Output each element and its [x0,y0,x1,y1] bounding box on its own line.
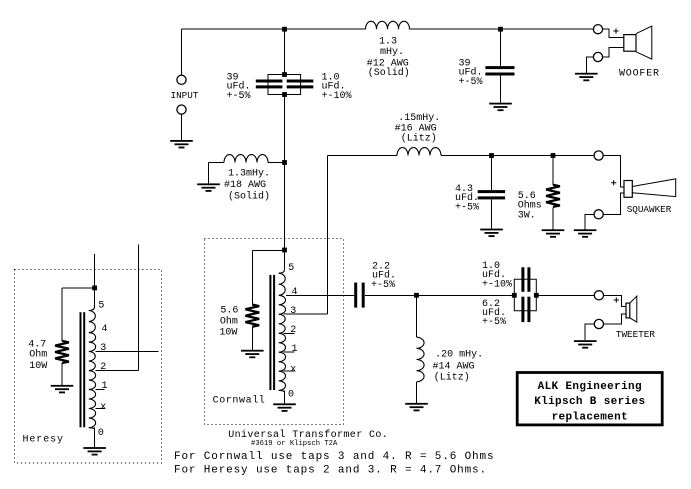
ALK Engineering title box [517,373,662,425]
svg-text:0: 0 [288,390,294,401]
capacitor C6 left plate [521,267,524,292]
svg-text:WOOFER: WOOFER [619,68,660,79]
node junction (bus / node A) [282,27,287,32]
wire R4 bottom lead [61,363,63,385]
inductor L4 .20 mHy #14 AWG (tweeter shunt) [417,337,425,382]
capacitor C5 left plate [354,283,357,308]
ground (R4) [51,385,74,393]
wire L4 ground stub [416,382,418,403]
wire L3 right lead [268,162,285,164]
svg-text:3: 3 [290,306,296,317]
autoformer T1 top curl [279,269,285,273]
ground (T1 tap 0) [273,403,296,411]
svg-text:+-5%: +-5% [459,77,483,88]
svg-text:TWEETER: TWEETER [616,329,655,340]
svg-text:5: 5 [288,263,294,274]
ground (R3) [241,350,264,358]
wire R2 bottom lead [552,207,554,229]
wire tweeter + lead [604,295,626,306]
svg-text:#14 AWG: #14 AWG [433,362,475,373]
svg-text:#18 AWG: #18 AWG [224,180,266,191]
capacitor C7 right plate [527,297,530,322]
node junction (C6-C7 right) [534,293,539,298]
tweeter speaker icon [626,296,637,322]
svg-text:1.3: 1.3 [379,37,397,48]
svg-text:+-10%: +-10% [322,91,352,102]
inductor L3 1.3 mHy #18 AWG (shunt) [224,155,268,163]
capacitor C4 top plate [478,190,505,193]
wire C3 top lead [500,29,502,66]
node junction (L3 / node A) [282,160,287,165]
wire T1 tap0 ground stub [284,390,286,403]
wire woofer terminal to ground [586,57,593,73]
C6/C7 parallel connector frame [514,279,536,311]
wire woofer + lead [603,29,624,38]
wire C4 bottom lead [491,199,493,228]
autoformer T1 winding (Cornwall) [279,273,286,390]
capacitor C6 right plate [527,267,530,292]
capacitor C4 bottom plate [478,196,505,199]
ground (tweeter terminal) [574,340,597,348]
svg-text:(Solid): (Solid) [368,67,410,79]
terminal woofer - [593,52,602,61]
wire R4 top lead [61,288,63,341]
capacitor C7 left plate [521,297,524,322]
terminal tweeter + [594,291,603,300]
ground (woofer terminal) [575,73,598,81]
svg-text:Heresy: Heresy [23,435,64,446]
terminal tweeter - [594,319,603,328]
svg-text:3: 3 [100,343,106,354]
node junction (node A / T1 tap5 / R3) [282,248,287,253]
node junction (tweeter / L4) [414,293,419,298]
wire autoformer T1 tap5 feed [284,250,286,269]
svg-text:Cornwall: Cornwall [213,395,266,407]
ground (C3 woofer cap) [489,103,512,111]
wire T2 tap2 riser (dangling top) [138,245,140,371]
svg-text:0: 0 [98,428,104,439]
polarity + (squawker) [611,180,616,185]
inductor L1 1.3 mHy #12 AWG (top bus) [366,21,410,29]
svg-text:+-5%: +-5% [482,317,506,328]
wire C3 bottom lead [500,75,502,102]
wire L4 top lead [416,295,418,337]
node junction (squawker / C4) [489,153,494,158]
wire squawker + lead [603,156,624,188]
svg-text:1.3mHy.: 1.3mHy. [228,169,270,180]
wire top bus left (input to L1) [182,28,366,30]
svg-text:10W: 10W [29,361,47,372]
wire node A to R3 [252,249,284,251]
node junction (C1-C2 top) [282,72,287,77]
wire woofer - lead [603,47,624,57]
wire C4 top lead [491,156,493,191]
svg-text:10W: 10W [219,327,237,338]
terminal squawker - [594,210,603,219]
node junction (T2 tap5 / R4) [92,286,97,291]
ground (squawker terminal) [574,229,597,237]
svg-text:.20 mHy.: .20 mHy. [435,350,483,361]
svg-text:Klipsch B series: Klipsch B series [534,396,645,408]
wire T2 tap3 lead (dangling) [96,351,159,353]
resistor R3 5.6 Ohm 10W [245,305,259,327]
svg-text:+-5%: +-5% [371,280,395,291]
ground (input) [170,140,193,148]
terminal input - [177,105,186,114]
terminal squawker + [594,151,603,160]
wire node A main drop (C1/C2 bottom to autoformer) [284,95,286,251]
wire L3 left lead [209,162,225,164]
wire C5 to C6/C7 pair [365,294,515,296]
svg-text:+-5%: +-5% [455,202,479,213]
svg-text:#3619 or Klipsch T2A: #3619 or Klipsch T2A [251,440,338,448]
capacitor C2 bottom plate [287,85,314,88]
svg-text:(Litz): (Litz) [434,372,470,384]
svg-text:(Solid): (Solid) [228,191,270,203]
svg-text:INPUT: INPUT [171,90,199,101]
svg-text:replacement: replacement [552,411,628,423]
wire T2 tap1 stub [96,389,105,391]
wire T1 tap2 stub [284,332,295,334]
squawker horn icon [624,179,676,197]
wire T2 tap5 riser (dangling top) [94,254,96,307]
polarity + (woofer) [613,28,618,33]
node junction (C1-C2 bottom) [282,92,287,97]
autoformer T2 core [80,312,86,427]
wire T2 node to R4 [62,287,95,289]
capacitor C1 top plate [256,80,283,83]
svg-text:4: 4 [292,287,298,298]
wire L2 to squawker terminal [441,155,594,157]
Cornwall dashed enclosure [205,239,344,425]
wire tweeter terminal to ground [585,324,594,340]
wire T1 tapx stub [284,370,295,372]
autoformer T1 bottom curl [279,390,285,392]
autoformer T2 winding (Heresy) [89,311,96,428]
wire T2 tap0 ground stub [94,428,96,447]
terminal input + [177,75,186,84]
wire R3 bottom lead [251,327,253,350]
svg-text:x: x [290,365,296,376]
svg-text:ALK Engineering: ALK Engineering [538,381,642,393]
inductor L2 .15 mHy #16 AWG (squawker) [397,148,441,156]
wire squawker - lead [603,193,624,214]
wire C6/C7 pair to tweeter terminal [536,294,594,296]
capacitor C3 top plate [485,66,514,69]
svg-text:mHy.: mHy. [380,47,404,58]
resistor R2 5.6 Ohms 3W [546,185,560,207]
svg-text:For Heresy use taps 2 and 3. R: For Heresy use taps 2 and 3. R = 4.7 Ohm… [174,464,487,476]
svg-text:5: 5 [98,300,104,311]
svg-text:Universal Transformer Co.: Universal Transformer Co. [228,429,388,441]
ground (L3 shunt inductor) [197,183,220,191]
wire R2 top lead [552,156,554,185]
svg-text:5.6: 5.6 [220,305,238,316]
Heresy dashed enclosure [15,270,162,464]
wire input riser [181,29,183,75]
polarity + (tweeter) [614,297,619,302]
wire tap4 to C5 [286,294,354,296]
wire tap3 riser to squawker branch [327,156,329,315]
svg-text:SQUAWKER: SQUAWKER [627,204,672,215]
svg-text:Ohm: Ohm [220,315,238,327]
wire squawker branch to L2 [328,155,398,157]
node junction (squawker / R2) [551,153,556,158]
woofer speaker icon [624,26,652,59]
capacitor C3 bottom plate [485,73,514,76]
wire top bus right (L1 to woofer terminal) [410,28,594,30]
wire T1 tap3 stub to riser [284,313,328,315]
svg-text:3W.: 3W. [518,211,536,222]
autoformer T1 core [269,275,275,390]
node junction (bus / C3) [498,27,503,32]
svg-text:For Cornwall use taps 3 and 4.: For Cornwall use taps 3 and 4. R = 5.6 O… [174,451,494,463]
ground (L4) [405,403,428,411]
C1/C2 parallel connector frame [268,75,301,95]
autoformer T2 top curl [89,307,95,311]
svg-text:1: 1 [102,381,108,392]
ground (C4 squawker cap) [480,229,503,237]
svg-text:+-5%: +-5% [227,91,251,102]
autoformer T2 bottom curl [89,428,95,430]
wire squawker terminal to ground [585,214,594,229]
svg-text:Ohm: Ohm [29,349,47,361]
wire T1 tap1 stub [284,351,295,353]
wire L3 ground stub [208,163,210,184]
svg-text:+-10%: +-10% [482,279,512,290]
terminal woofer + [593,25,602,34]
wire T2 tapx stub [96,408,105,410]
svg-text:x: x [100,402,106,413]
ground (T2 tap 0) [83,447,106,455]
capacitor C5 right plate [362,283,365,308]
svg-text:1: 1 [292,344,298,355]
svg-text:(Litz): (Litz) [401,133,437,145]
node junction (C6-C7 left) [512,293,517,298]
capacitor C2 top plate [287,80,314,83]
resistor R4 4.7 Ohm 10W [55,341,69,363]
svg-text:2: 2 [100,362,106,373]
wire node A riser (bus to C1/C2 top) [284,29,286,74]
svg-text:4: 4 [102,324,108,335]
wire input ground stub [181,114,183,140]
wire tweeter - lead [604,314,626,324]
capacitor C1 bottom plate [256,85,283,88]
ground (R2) [542,229,565,237]
wire R3 top lead [251,250,253,304]
svg-text:2: 2 [290,325,296,336]
wire T2 tap2 lead [96,370,139,372]
